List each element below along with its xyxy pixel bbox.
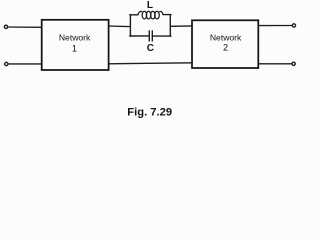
capacitor C plate 1 (148, 30, 150, 41)
wire input bottom to Network 1 (8, 63, 42, 65)
wire LC tank node B to Network 2 (170, 25, 192, 27)
wire Network 2 to output bottom (258, 63, 292, 65)
wire bottom rail Network 1 to Network 2 (109, 63, 192, 64)
tank left bar node A (129, 15, 131, 36)
wire Network 2 to output top (258, 25, 292, 27)
inductor L loop 1 (142, 11, 147, 19)
svg-text:Network: Network (210, 32, 242, 42)
network N1 box (42, 20, 109, 70)
svg-text:Network: Network (59, 32, 91, 42)
svg-text:Fig. 7.29: Fig. 7.29 (127, 107, 172, 119)
tank right bar node B (169, 15, 171, 36)
terminal T4 (output bottom) (292, 62, 295, 65)
terminal T1 (input top) (4, 25, 7, 28)
svg-text:C: C (147, 43, 154, 54)
wire Network 1 to LC tank node A (109, 25, 131, 28)
inductor L loop 4 (155, 11, 160, 19)
svg-text:2: 2 (223, 43, 228, 53)
tank bottom branch wire left (130, 35, 149, 37)
terminal T3 (output top) (292, 24, 295, 27)
inductor L loop 3 (151, 11, 156, 19)
capacitor C plate 2 (151, 30, 153, 41)
inductor L loop 2 (146, 11, 151, 19)
wire input top to Network 1 (8, 26, 42, 28)
network N2 box (192, 20, 258, 68)
inductor L coil exit arc (159, 11, 163, 14)
tank top branch wire right (163, 14, 171, 16)
tank top branch wire left (130, 14, 138, 16)
tank bottom branch wire right (153, 35, 171, 37)
inductor L coil entry arc (138, 11, 142, 14)
svg-text:L: L (147, 0, 153, 11)
terminal T2 (input bottom) (5, 62, 8, 65)
svg-text:1: 1 (72, 44, 77, 54)
